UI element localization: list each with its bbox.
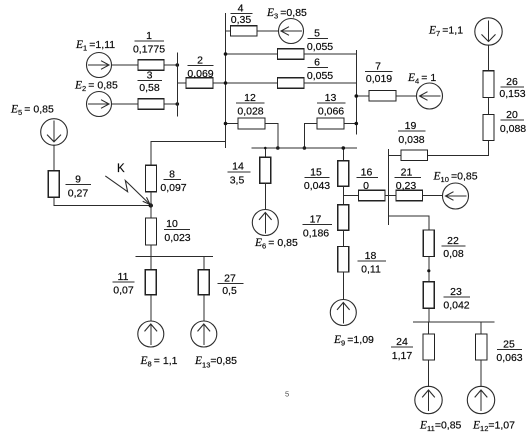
wire R15 to R17 [342, 186, 344, 205]
svg-text:0,097: 0,097 [160, 182, 186, 194]
lower left bus [135, 255, 213, 257]
wire R12 down to mid bus [265, 124, 278, 149]
svg-text:3: 3 [147, 69, 153, 81]
wire R26 to R20 [488, 98, 490, 115]
emf source E4 [417, 83, 443, 109]
resistor R8 [146, 165, 157, 192]
svg-text:0,055: 0,055 [307, 41, 333, 53]
svg-text:13: 13 [325, 92, 337, 104]
wire R27 to E13 [203, 295, 205, 321]
wire E2 to R3 [112, 103, 139, 105]
value label 16/0 [357, 166, 379, 192]
svg-text:E11=0,85: E11=0,85 [419, 420, 462, 433]
value label 5/0,055 [307, 27, 333, 53]
value label 4/0,35 [231, 3, 253, 27]
svg-text:E12=1,07: E12=1,07 [472, 420, 515, 433]
wire midbus to R14 [264, 148, 266, 157]
emf source E8 [138, 321, 164, 347]
wire fault junction to R10 [150, 206, 152, 219]
resistor R5 [278, 49, 305, 60]
value label 11/0,07 [113, 271, 135, 297]
resistor R23 [423, 282, 434, 309]
svg-text:E9 =1,09: E9 =1,09 [333, 334, 374, 348]
wire bus to R12 [226, 123, 239, 125]
wire R8 to fault junction [150, 192, 152, 206]
svg-text:E1 =1,11: E1 =1,11 [75, 39, 115, 53]
svg-text:0,063: 0,063 [496, 352, 522, 364]
value label 10/0,023 [164, 218, 191, 244]
wire R9 to fault junction [54, 197, 151, 205]
svg-text:25: 25 [503, 338, 515, 350]
node dot R12-midbus [276, 146, 280, 150]
emf source E9 [330, 300, 356, 326]
svg-text:K: K [117, 163, 125, 175]
wire R3 to left bus [164, 103, 177, 105]
svg-text:8: 8 [169, 168, 175, 180]
svg-text:E5 = 0,85: E5 = 0,85 [10, 104, 54, 118]
node dot R13-rightbus [355, 122, 359, 126]
wire midbus to R15 [342, 148, 344, 161]
resistor R22 [423, 230, 434, 257]
svg-text:19: 19 [405, 120, 417, 132]
svg-text:7: 7 [375, 61, 381, 73]
svg-text:12: 12 [244, 92, 256, 104]
svg-text:21: 21 [401, 166, 413, 178]
value label 7/0,019 [365, 61, 393, 85]
svg-text:5: 5 [285, 390, 289, 399]
wire R21 to E10 [423, 195, 443, 197]
svg-text:0,019: 0,019 [366, 73, 392, 85]
lower right bus [413, 321, 495, 323]
emf source E11 [415, 386, 442, 413]
mid bus under R12 R13 [252, 147, 358, 149]
svg-text:0: 0 [363, 180, 369, 192]
resistor R10 [146, 218, 157, 245]
svg-text:0,1775: 0,1775 [133, 43, 165, 55]
wire E1 to R1 [112, 64, 139, 66]
svg-text:E3 =0,85: E3 =0,85 [266, 7, 307, 21]
central bus [225, 13, 227, 148]
svg-text:0,153: 0,153 [499, 88, 525, 100]
wire bus389 corner to R22 [389, 216, 429, 230]
resistor R16 [359, 190, 386, 200]
resistor R3 [138, 99, 164, 110]
wire R7 to E4 [396, 95, 417, 97]
svg-text:2: 2 [197, 54, 203, 66]
node dot R1-bus [176, 63, 180, 67]
resistor R20 [483, 115, 494, 141]
svg-text:9: 9 [75, 173, 81, 185]
value label 18/0,11 [358, 250, 387, 276]
svg-text:17: 17 [310, 213, 322, 225]
node tick R14 [264, 147, 267, 150]
wire bus to R2 [177, 82, 186, 84]
emf source E1 [87, 53, 112, 78]
resistor R1 [138, 60, 164, 71]
svg-text:11: 11 [118, 271, 129, 283]
wire E7 to R26 [488, 45, 490, 71]
svg-text:E2 = 0,85: E2 = 0,85 [74, 80, 118, 94]
svg-text:16: 16 [361, 166, 373, 178]
emf source E5 [41, 119, 68, 146]
value label 25/0,063 [496, 338, 522, 364]
node dot R13-midbus [303, 146, 307, 150]
resistor R11 [145, 270, 156, 295]
wire bus to R27 [203, 256, 205, 270]
wire R16 to bus389 [385, 195, 389, 197]
resistor R21 [396, 190, 423, 200]
wire R11 to E8 [150, 295, 152, 321]
wire R1 to left bus [164, 64, 177, 66]
node dot bus-R6 [224, 81, 228, 85]
svg-text:4: 4 [238, 3, 244, 15]
resistor R17 [338, 205, 349, 231]
svg-text:E4 = 1: E4 = 1 [407, 72, 436, 86]
resistor R18 [338, 247, 349, 273]
node dot R22-R23 [427, 269, 430, 272]
svg-text:0,038: 0,038 [398, 134, 424, 146]
fault lightning arrow [105, 176, 150, 205]
svg-text:6: 6 [314, 56, 320, 68]
svg-text:0,08: 0,08 [443, 248, 464, 260]
fault node K junction [149, 203, 153, 207]
wire right bus to R7 [356, 95, 369, 97]
wire R14 to E6 [264, 183, 266, 209]
svg-text:5: 5 [314, 27, 320, 39]
svg-text:0,5: 0,5 [222, 285, 237, 297]
value label 8/0,097 [160, 168, 186, 194]
svg-text:1,17: 1,17 [392, 350, 413, 362]
svg-text:0,042: 0,042 [443, 299, 469, 311]
value label 1/0,1775 [133, 30, 165, 56]
svg-text:0,27: 0,27 [68, 187, 89, 199]
wire bus to R25 [480, 322, 482, 334]
value label 12/0,028 [236, 92, 265, 118]
node dot midbus-R15 [342, 146, 346, 150]
svg-text:0,07: 0,07 [113, 284, 134, 296]
emf source E3 [279, 19, 304, 44]
wire R6 to right bus [304, 82, 356, 84]
value label 14/3,5 [228, 160, 251, 186]
value label 2/0,069 [187, 54, 213, 80]
bus 389 vertical [388, 149, 390, 225]
svg-text:0,028: 0,028 [237, 105, 263, 117]
wire R22 to R23 [428, 257, 430, 282]
svg-text:E8 = 1,1: E8 = 1,1 [140, 355, 178, 369]
resistor R25 [476, 334, 488, 360]
resistor R26 [483, 71, 494, 98]
right bus [355, 50, 357, 135]
value label 15/0,043 [304, 166, 330, 192]
wire R24 to E11 [428, 360, 430, 387]
node dot bus-R12 [224, 122, 228, 126]
svg-text:E6 = 0,85: E6 = 0,85 [254, 237, 298, 251]
svg-text:0,35: 0,35 [231, 14, 252, 26]
svg-text:0,069: 0,069 [187, 68, 213, 80]
svg-text:26: 26 [506, 76, 518, 88]
emf source E12 [467, 386, 494, 413]
resistor R19 [401, 150, 428, 161]
wire R17 to R18 [342, 230, 344, 246]
value label 27/0,5 [218, 272, 244, 297]
emf source E7 [475, 18, 502, 45]
emf source E13 [191, 321, 217, 347]
emf source E2 [87, 92, 112, 117]
wire bus to R5 [226, 53, 278, 55]
resistor R6 [278, 78, 305, 89]
value label 3/0,58 [138, 69, 163, 94]
wire R13 to right bus [344, 123, 356, 125]
wire bus to R11 [150, 256, 152, 270]
resistor R9 [48, 171, 59, 198]
wire bus to R6 [226, 82, 278, 84]
wire central bus to R4 [226, 30, 231, 32]
value label 13/0,066 [317, 92, 346, 118]
resistor R13 [317, 118, 344, 129]
resistor R7 [369, 91, 396, 102]
value label 9/0,27 [66, 173, 92, 199]
resistor R14 [260, 157, 271, 183]
wire R13 down to mid bus [304, 124, 317, 149]
value label 20/0,088 [500, 109, 526, 135]
node dot bus-R5 [224, 52, 228, 56]
svg-text:0,186: 0,186 [303, 227, 329, 239]
value label 24/1,17 [391, 336, 413, 362]
wire R18 to E9 [342, 272, 344, 300]
svg-text:22: 22 [447, 235, 459, 247]
svg-text:27: 27 [224, 272, 236, 284]
resistor R12 [238, 118, 265, 129]
svg-text:0,066: 0,066 [318, 105, 344, 117]
value label 22/0,08 [442, 235, 466, 260]
emf source E10 [443, 183, 469, 209]
node dot bus-R7 [355, 94, 359, 98]
wire R5 to right bus [304, 53, 356, 55]
node dot R3-bus [176, 102, 180, 106]
svg-text:0,043: 0,043 [304, 180, 330, 192]
value label 17/0,186 [303, 213, 333, 239]
svg-text:10: 10 [166, 218, 178, 230]
wire R20 corner to R19 [428, 141, 489, 156]
wire R10 to lower left bus [150, 245, 152, 256]
wire bus389 to R21 [389, 195, 397, 197]
svg-text:23: 23 [450, 286, 462, 298]
svg-text:E13=0,85: E13=0,85 [194, 355, 237, 370]
wire R19 to bus389 [389, 154, 402, 156]
svg-text:20: 20 [506, 109, 518, 121]
resistor R24 [423, 334, 435, 360]
emf source E6 [252, 210, 278, 236]
svg-text:0,055: 0,055 [307, 70, 333, 82]
value label 23/0,042 [443, 286, 470, 312]
wire E5 to R9 [53, 145, 55, 171]
resistor R2 [186, 78, 213, 89]
svg-text:0,23: 0,23 [396, 180, 417, 192]
svg-text:14: 14 [232, 160, 244, 172]
value label 6/0,055 [307, 56, 333, 82]
svg-text:1: 1 [146, 30, 152, 42]
svg-text:18: 18 [365, 250, 377, 262]
svg-text:0,58: 0,58 [139, 82, 160, 94]
svg-text:15: 15 [310, 166, 322, 178]
svg-text:0,088: 0,088 [500, 123, 526, 135]
wire R25 to E12 [480, 360, 482, 387]
resistor R15 [338, 161, 349, 187]
wire R4 to E3 [257, 30, 279, 32]
resistor R4 [231, 26, 258, 36]
value label 19/0,038 [398, 120, 426, 146]
wire bus to R24 [428, 322, 430, 334]
left bus [176, 53, 178, 117]
wire R2 to central bus [213, 82, 226, 84]
wire junction to R16 [343, 195, 358, 197]
resistor R27 [198, 270, 209, 295]
value label 21/0,23 [395, 166, 422, 192]
value label 26/0,153 [499, 76, 525, 100]
svg-text:E7 =1,1: E7 =1,1 [428, 25, 463, 39]
wire R23 to lower bus [428, 308, 430, 322]
svg-text:E10 =0,85: E10 =0,85 [433, 171, 478, 185]
svg-text:3,5: 3,5 [230, 174, 245, 186]
svg-text:0,11: 0,11 [361, 263, 381, 275]
wire central bus corner to R8 [151, 141, 226, 165]
svg-text:24: 24 [396, 336, 408, 348]
svg-text:0,023: 0,023 [164, 232, 190, 244]
